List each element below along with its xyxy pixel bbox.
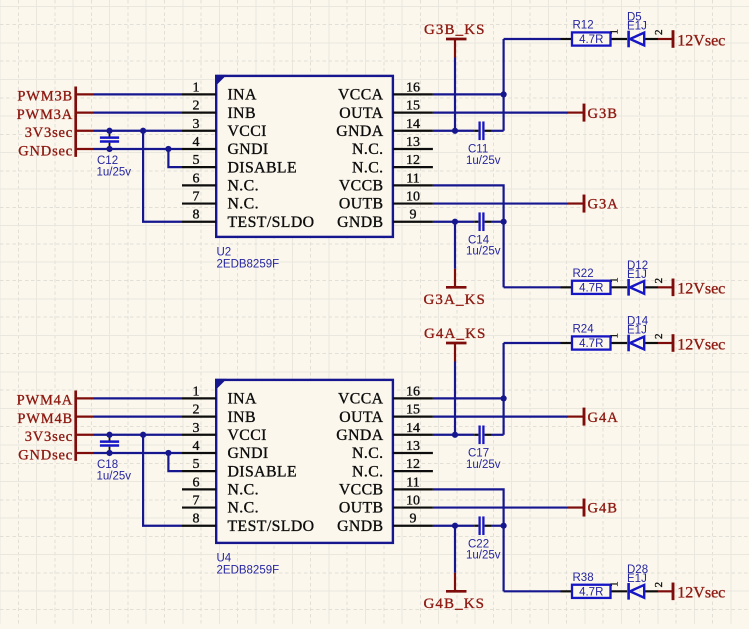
svg-text:2: 2 bbox=[653, 278, 665, 284]
port G4B bbox=[568, 506, 583, 508]
svg-text:E1J: E1J bbox=[627, 21, 647, 33]
pin 3 VCCI of U2 bbox=[182, 130, 216, 132]
svg-text:2: 2 bbox=[653, 30, 665, 36]
wire 3V3sec to VCCI bbox=[77, 434, 94, 436]
svg-text:INA: INA bbox=[228, 87, 257, 104]
svg-text:14: 14 bbox=[406, 117, 420, 132]
wire 3V3sec to VCCI bbox=[77, 130, 94, 132]
junction GNDsec at DISABLE wire bbox=[165, 450, 171, 456]
wire GNDB to cap bbox=[433, 525, 474, 527]
pin 5 DISABLE of U4 bbox=[182, 470, 216, 472]
pin 8 TEST/SLDO of U2 bbox=[182, 221, 216, 223]
svg-text:7: 7 bbox=[193, 190, 200, 205]
wire GNDsec to DISABLE bbox=[168, 453, 182, 471]
svg-text:8: 8 bbox=[193, 512, 200, 527]
wire VCCA to rail bbox=[433, 397, 504, 399]
svg-text:U2: U2 bbox=[217, 246, 232, 258]
svg-text:1: 1 bbox=[609, 277, 621, 283]
pin 14 GNDA of U2 bbox=[393, 130, 433, 132]
power port 12Vsec bbox=[658, 38, 672, 40]
svg-text:7: 7 bbox=[193, 494, 200, 509]
svg-text:VCCB: VCCB bbox=[339, 482, 384, 499]
junction GNDB at KS bbox=[452, 219, 458, 225]
svg-text:8: 8 bbox=[193, 208, 200, 223]
power port G4B_KS bbox=[454, 573, 456, 591]
svg-text:GNDA: GNDA bbox=[336, 123, 383, 140]
pin 10 OUTB of U2 bbox=[393, 202, 433, 204]
svg-text:U4: U4 bbox=[217, 552, 232, 564]
svg-text:VCCA: VCCA bbox=[338, 391, 384, 408]
pin 12 N.C. of U2 bbox=[393, 166, 433, 168]
svg-text:5: 5 bbox=[193, 153, 200, 168]
pin 8 TEST/SLDO of U4 bbox=[182, 525, 216, 527]
pin 11 VCCB of U2 bbox=[393, 184, 433, 186]
resistor R12 bbox=[561, 38, 573, 40]
junction 3V3sec at C18 bbox=[106, 432, 112, 438]
svg-text:1u/25v: 1u/25v bbox=[97, 471, 132, 483]
capacitor C17 bbox=[474, 434, 478, 436]
svg-text:VCCI: VCCI bbox=[228, 123, 267, 140]
svg-text:R24: R24 bbox=[573, 324, 595, 336]
svg-text:GNDsec: GNDsec bbox=[18, 143, 73, 159]
pin 4 GNDI of U2 bbox=[182, 148, 216, 150]
junction VCCA bbox=[501, 395, 507, 401]
wire PWM3A to INB bbox=[77, 111, 94, 113]
IC U2 bbox=[216, 76, 393, 237]
svg-text:1u/25v: 1u/25v bbox=[466, 550, 501, 562]
pin 3 VCCI of U4 bbox=[182, 434, 216, 436]
resistor R22 bbox=[561, 286, 573, 288]
pin 1 INA of U4 bbox=[182, 397, 216, 399]
svg-text:G3A_KS: G3A_KS bbox=[424, 292, 486, 308]
svg-text:1: 1 bbox=[609, 581, 621, 587]
junction GNDsec at C18 bbox=[106, 450, 112, 456]
pin 15 OUTA of U4 bbox=[393, 415, 433, 417]
wire VCCB vertical bbox=[433, 185, 504, 287]
svg-text:10: 10 bbox=[406, 190, 420, 205]
pin 16 VCCA of U2 bbox=[393, 93, 433, 95]
svg-text:2: 2 bbox=[653, 582, 665, 588]
svg-text:10: 10 bbox=[406, 494, 420, 509]
junction 3V3sec at TEST wire bbox=[140, 432, 146, 438]
svg-text:GNDI: GNDI bbox=[228, 445, 269, 462]
svg-text:TEST/SLDO: TEST/SLDO bbox=[228, 214, 315, 231]
wire R38 rail bbox=[504, 590, 561, 592]
pin 7 N.C. of U4 bbox=[182, 506, 216, 508]
svg-text:3: 3 bbox=[193, 117, 200, 132]
wire OUT to port G4A bbox=[433, 415, 568, 417]
wire R12 rail bbox=[504, 38, 561, 40]
resistor R24 bbox=[561, 342, 573, 344]
wire OUT to port G4B bbox=[433, 506, 568, 508]
svg-text:GNDB: GNDB bbox=[337, 214, 383, 231]
diode D14 bbox=[627, 335, 630, 352]
wire GNDsec to DISABLE bbox=[168, 149, 182, 167]
svg-text:N.C.: N.C. bbox=[228, 482, 259, 499]
pin 16 VCCA of U4 bbox=[393, 397, 433, 399]
pin 9 GNDB of U2 bbox=[393, 221, 433, 223]
wire GNDB to cap bbox=[433, 221, 474, 223]
svg-text:N.C.: N.C. bbox=[228, 196, 259, 213]
svg-text:R12: R12 bbox=[573, 20, 594, 32]
pin 7 N.C. of U2 bbox=[182, 202, 216, 204]
svg-text:C12: C12 bbox=[97, 155, 118, 167]
svg-text:N.C.: N.C. bbox=[228, 500, 259, 517]
svg-text:N.C.: N.C. bbox=[228, 178, 259, 195]
svg-text:GNDsec: GNDsec bbox=[18, 447, 73, 463]
port PWM4A bbox=[74, 391, 77, 461]
capacitor C11 bbox=[474, 130, 478, 132]
svg-text:E1J: E1J bbox=[627, 269, 647, 281]
svg-text:12Vsec: 12Vsec bbox=[677, 336, 725, 353]
svg-text:INA: INA bbox=[228, 391, 257, 408]
svg-text:1: 1 bbox=[609, 29, 621, 35]
svg-text:R38: R38 bbox=[573, 572, 594, 584]
junction GNDA at KS bbox=[452, 432, 458, 438]
diode D5 bbox=[627, 31, 630, 48]
pin 6 N.C. of U2 bbox=[182, 184, 216, 186]
svg-text:4: 4 bbox=[193, 135, 200, 150]
svg-text:OUTA: OUTA bbox=[339, 409, 383, 426]
svg-text:4.7R: 4.7R bbox=[579, 338, 603, 350]
svg-text:2: 2 bbox=[653, 334, 665, 340]
wire GNDsec to GNDI bbox=[77, 452, 94, 454]
svg-text:12Vsec: 12Vsec bbox=[677, 585, 725, 602]
svg-text:DISABLE: DISABLE bbox=[228, 463, 298, 480]
svg-text:4: 4 bbox=[193, 439, 200, 454]
svg-text:3: 3 bbox=[193, 421, 200, 436]
svg-text:13: 13 bbox=[406, 439, 420, 454]
svg-text:C18: C18 bbox=[97, 459, 118, 471]
pin 11 VCCB of U4 bbox=[393, 488, 433, 490]
power port G4A_KS bbox=[446, 342, 467, 345]
svg-text:INB: INB bbox=[228, 409, 256, 426]
wire VCCA vertical bbox=[503, 39, 505, 131]
svg-text:VCCI: VCCI bbox=[228, 427, 267, 444]
pin 15 OUTA of U2 bbox=[393, 111, 433, 113]
svg-text:4.7R: 4.7R bbox=[579, 586, 603, 598]
wire VCCB vertical bbox=[433, 489, 504, 591]
wire GNDA to cap bbox=[433, 434, 474, 436]
svg-text:14: 14 bbox=[406, 421, 420, 436]
svg-text:G4B_KS: G4B_KS bbox=[424, 596, 486, 612]
svg-text:G3B: G3B bbox=[588, 106, 618, 122]
svg-text:PWM4A: PWM4A bbox=[17, 393, 73, 409]
svg-text:1u/25v: 1u/25v bbox=[466, 155, 501, 167]
svg-text:OUTB: OUTB bbox=[339, 500, 384, 517]
svg-text:VCCA: VCCA bbox=[338, 87, 384, 104]
svg-text:G4A_KS: G4A_KS bbox=[424, 326, 486, 342]
svg-text:E1J: E1J bbox=[627, 573, 647, 585]
svg-text:2EDB8259F: 2EDB8259F bbox=[217, 564, 280, 576]
wire GNDsec to GNDI bbox=[77, 148, 94, 150]
pin 10 OUTB of U4 bbox=[393, 506, 433, 508]
port G3A bbox=[568, 202, 583, 204]
svg-text:16: 16 bbox=[406, 384, 420, 399]
svg-text:12: 12 bbox=[406, 457, 420, 472]
svg-text:11: 11 bbox=[406, 171, 419, 186]
svg-text:9: 9 bbox=[410, 208, 417, 223]
power port 12Vsec bbox=[658, 590, 672, 592]
svg-text:12Vsec: 12Vsec bbox=[677, 281, 725, 298]
svg-text:16: 16 bbox=[406, 80, 420, 95]
svg-text:E1J: E1J bbox=[627, 325, 647, 337]
svg-text:1u/25v: 1u/25v bbox=[466, 459, 501, 471]
pin 13 N.C. of U4 bbox=[393, 452, 433, 454]
junction 3V3sec at C12 bbox=[106, 128, 112, 134]
IC U4 bbox=[216, 380, 393, 543]
wire PWM3B to INA bbox=[77, 93, 94, 95]
svg-text:PWM4B: PWM4B bbox=[17, 411, 73, 427]
svg-text:N.C.: N.C. bbox=[352, 159, 383, 176]
junction GNDsec at C12 bbox=[106, 146, 112, 152]
svg-text:9: 9 bbox=[410, 512, 417, 527]
svg-text:C11: C11 bbox=[468, 144, 488, 156]
wire R24 rail bbox=[504, 342, 561, 344]
svg-text:15: 15 bbox=[406, 99, 420, 114]
junction GNDA at KS bbox=[452, 128, 458, 134]
port PWM3B bbox=[74, 87, 77, 157]
capacitor C18 bbox=[109, 436, 111, 441]
svg-text:PWM3B: PWM3B bbox=[17, 89, 73, 105]
power port 12Vsec bbox=[658, 342, 672, 344]
svg-text:2: 2 bbox=[193, 403, 200, 418]
pin 2 INB of U2 bbox=[182, 111, 216, 113]
wire PWM4B to INB bbox=[77, 415, 94, 417]
wire R22 rail bbox=[504, 286, 561, 288]
svg-text:4.7R: 4.7R bbox=[579, 34, 603, 46]
svg-text:C17: C17 bbox=[468, 448, 489, 460]
svg-text:N.C.: N.C. bbox=[352, 141, 383, 158]
svg-text:N.C.: N.C. bbox=[352, 463, 383, 480]
resistor R38 bbox=[561, 590, 573, 592]
pin 14 GNDA of U4 bbox=[393, 434, 433, 436]
svg-text:OUTA: OUTA bbox=[339, 105, 383, 122]
junction 3V3sec at TEST wire bbox=[140, 128, 146, 134]
junction GNDB at KS bbox=[452, 523, 458, 529]
capacitor C22 bbox=[474, 525, 478, 527]
svg-text:G4A: G4A bbox=[588, 410, 619, 426]
svg-text:1: 1 bbox=[609, 333, 621, 339]
diode D28 bbox=[627, 583, 630, 600]
svg-text:6: 6 bbox=[193, 171, 200, 186]
pin 5 DISABLE of U2 bbox=[182, 166, 216, 168]
svg-text:11: 11 bbox=[406, 475, 419, 490]
pin 12 N.C. of U4 bbox=[393, 470, 433, 472]
svg-text:13: 13 bbox=[406, 135, 420, 150]
capacitor C14 bbox=[474, 221, 478, 223]
svg-text:4.7R: 4.7R bbox=[579, 282, 603, 294]
svg-text:C14: C14 bbox=[468, 235, 490, 247]
svg-text:2: 2 bbox=[193, 99, 200, 114]
pin 6 N.C. of U4 bbox=[182, 488, 216, 490]
wire G3A_KS up bbox=[454, 222, 456, 269]
svg-text:1: 1 bbox=[193, 384, 200, 399]
wire 3V3sec to TEST/SLDO bbox=[143, 131, 182, 222]
wire OUT to port G3A bbox=[433, 202, 568, 204]
svg-text:N.C.: N.C. bbox=[352, 445, 383, 462]
svg-text:DISABLE: DISABLE bbox=[228, 159, 298, 176]
pin 2 INB of U4 bbox=[182, 415, 216, 417]
svg-text:6: 6 bbox=[193, 475, 200, 490]
svg-text:1u/25v: 1u/25v bbox=[466, 246, 501, 258]
svg-text:TEST/SLDO: TEST/SLDO bbox=[228, 518, 315, 535]
junction GNDsec at DISABLE wire bbox=[165, 146, 171, 152]
svg-text:INB: INB bbox=[228, 105, 256, 122]
svg-text:5: 5 bbox=[193, 457, 200, 472]
svg-text:PWM3A: PWM3A bbox=[17, 107, 73, 123]
wire VCCA to rail bbox=[433, 93, 504, 95]
svg-text:1: 1 bbox=[193, 80, 200, 95]
svg-text:VCCB: VCCB bbox=[339, 178, 384, 195]
wire VCCA vertical bbox=[503, 343, 505, 435]
pin 9 GNDB of U4 bbox=[393, 525, 433, 527]
pin 4 GNDI of U4 bbox=[182, 452, 216, 454]
svg-text:R22: R22 bbox=[573, 268, 594, 280]
svg-text:C22: C22 bbox=[468, 539, 489, 551]
svg-text:12Vsec: 12Vsec bbox=[677, 32, 725, 49]
capacitor C12 bbox=[109, 132, 111, 137]
wire G3B_KS down bbox=[454, 58, 456, 131]
svg-text:2EDB8259F: 2EDB8259F bbox=[217, 258, 280, 270]
diode D12 bbox=[627, 279, 630, 296]
svg-text:1u/25v: 1u/25v bbox=[97, 167, 132, 179]
svg-text:3V3sec: 3V3sec bbox=[25, 125, 73, 141]
wire PWM4A to INA bbox=[77, 397, 94, 399]
svg-text:G3B_KS: G3B_KS bbox=[424, 22, 486, 38]
wire 3V3sec to TEST/SLDO bbox=[143, 435, 182, 526]
svg-text:GNDI: GNDI bbox=[228, 141, 269, 158]
wire GNDA to cap bbox=[433, 130, 474, 132]
junction VCCA bbox=[501, 91, 507, 97]
svg-text:OUTB: OUTB bbox=[339, 196, 384, 213]
svg-text:15: 15 bbox=[406, 403, 420, 418]
power port 12Vsec bbox=[658, 286, 672, 288]
power port G3B_KS bbox=[446, 38, 467, 41]
svg-text:G4B: G4B bbox=[588, 501, 618, 517]
svg-text:3V3sec: 3V3sec bbox=[25, 429, 73, 445]
junction GNDB at VCCB vertical bbox=[501, 219, 507, 225]
port G3B bbox=[568, 111, 583, 113]
pin 1 INA of U2 bbox=[182, 93, 216, 95]
svg-text:12: 12 bbox=[406, 153, 420, 168]
svg-text:GNDA: GNDA bbox=[336, 427, 383, 444]
svg-text:GNDB: GNDB bbox=[337, 518, 383, 535]
port G4A bbox=[568, 415, 583, 417]
junction GNDB at VCCB vertical bbox=[501, 523, 507, 529]
svg-text:G3A: G3A bbox=[588, 197, 619, 213]
wire G4A_KS down bbox=[454, 362, 456, 435]
wire OUT to port G3B bbox=[433, 111, 568, 113]
wire G4B_KS up bbox=[454, 526, 456, 573]
power port G3A_KS bbox=[454, 269, 456, 287]
pin 13 N.C. of U2 bbox=[393, 148, 433, 150]
